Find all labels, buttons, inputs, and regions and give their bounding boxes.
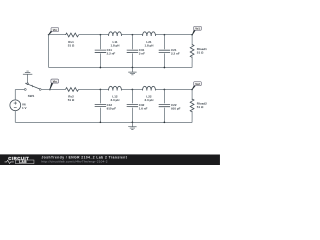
junction node C12 bottom bbox=[100, 121, 102, 123]
wire Vin to Rs1 bbox=[49, 34, 66, 36]
junction node at C31 top bbox=[132, 34, 134, 36]
svg-text:51 Ω: 51 Ω bbox=[197, 105, 204, 109]
wire switch to Rs2 bbox=[41, 88, 65, 90]
svg-text:51 Ω: 51 Ω bbox=[197, 50, 204, 54]
svg-text:LAB: LAB bbox=[19, 160, 27, 164]
flag Vin (bottom circuit) bbox=[50, 79, 59, 89]
svg-text:Vo1: Vo1 bbox=[195, 27, 200, 31]
ground (bottom circuit) bbox=[128, 122, 136, 129]
wire left vertical (top circuit) bbox=[48, 35, 50, 68]
svg-text:910 pF: 910 pF bbox=[171, 107, 181, 111]
inductor L22 bbox=[143, 86, 156, 102]
resistor Rs1 bbox=[66, 33, 79, 47]
wire Rs2 to L12 bbox=[78, 88, 108, 90]
svg-text:1.8 µH: 1.8 µH bbox=[111, 44, 120, 48]
wire V6 top to switch bbox=[15, 89, 24, 99]
inductor L11 bbox=[109, 32, 122, 48]
capacitor C11 bbox=[95, 35, 116, 68]
svg-text:Vo2: Vo2 bbox=[195, 82, 200, 86]
capacitor C12 bbox=[95, 89, 117, 122]
junction node C21 bottom bbox=[164, 67, 166, 69]
wire Rs1 to L11 bbox=[79, 34, 109, 36]
flag Vin (top circuit) bbox=[49, 27, 59, 34]
flag Vo1 bbox=[192, 26, 201, 35]
svg-text:3 nF: 3 nF bbox=[139, 52, 145, 56]
svg-text:910 pF: 910 pF bbox=[107, 107, 117, 111]
svg-text:2.2 nF: 2.2 nF bbox=[171, 52, 180, 56]
voltage source V6 bbox=[10, 100, 27, 111]
resistor Rload1 bbox=[190, 35, 207, 68]
node Vo2 bbox=[191, 89, 193, 91]
node Vin (bottom) bbox=[49, 89, 51, 91]
junction node ground (bottom circuit) bbox=[132, 121, 134, 123]
junction node at C11 top bbox=[100, 34, 102, 36]
svg-text:51 Ω: 51 Ω bbox=[68, 98, 75, 102]
footer bar bbox=[0, 154, 220, 165]
capacitor C32 bbox=[127, 90, 148, 123]
wire L11 to L21 bbox=[122, 34, 143, 36]
switch SW1 bbox=[24, 83, 41, 98]
junction node at C21 top bbox=[164, 34, 166, 36]
svg-text:Vin: Vin bbox=[53, 79, 57, 83]
svg-text:Vin: Vin bbox=[53, 28, 57, 32]
wire L21 to output corner bbox=[156, 34, 193, 36]
inductor L12 bbox=[109, 86, 122, 102]
svg-text:3.3 µH: 3.3 µH bbox=[145, 98, 154, 102]
wire L12 to L22 bbox=[121, 89, 142, 91]
junction node at C32 top bbox=[132, 89, 134, 91]
wire bottom rail (bottom circuit) bbox=[15, 121, 192, 123]
junction node C22 bottom bbox=[164, 121, 166, 123]
ground (top circuit) bbox=[128, 68, 136, 75]
flag Vo2 bbox=[192, 82, 201, 90]
capacitor C22 bbox=[159, 90, 181, 123]
capacitor C31 bbox=[127, 35, 145, 68]
resistor Rload2 bbox=[190, 90, 207, 123]
wire V6 bottom to rail bbox=[14, 111, 16, 123]
node Vo1 bbox=[191, 34, 193, 36]
junction node C11 bottom bbox=[100, 67, 102, 69]
svg-text:2.2 nF: 2.2 nF bbox=[107, 52, 116, 56]
junction node at C12 top bbox=[100, 89, 102, 91]
inductor L21 bbox=[143, 32, 156, 48]
svg-text:1 V: 1 V bbox=[22, 106, 27, 110]
svg-text:SW1: SW1 bbox=[28, 94, 35, 98]
svg-text:1.8 µH: 1.8 µH bbox=[145, 44, 154, 48]
resistor Rs2 bbox=[65, 88, 78, 102]
svg-text:3.3 µH: 3.3 µH bbox=[111, 98, 120, 102]
node Vin (top) bbox=[48, 34, 50, 36]
svg-text:51 Ω: 51 Ω bbox=[68, 43, 75, 47]
wire bottom rail (top circuit) bbox=[49, 66, 192, 68]
junction node ground (top circuit) bbox=[132, 67, 134, 69]
ground (flipped, above switch) bbox=[23, 71, 32, 83]
svg-text:1.6 nF: 1.6 nF bbox=[139, 107, 148, 111]
CircuitLab logo bbox=[5, 156, 34, 164]
junction node at C22 top bbox=[164, 89, 166, 91]
wire L22 to output corner bbox=[155, 89, 192, 91]
svg-text:http://circuitlab.com/c/4hv7fm: http://circuitlab.com/c/4hv7fm/engr-2104… bbox=[41, 159, 107, 163]
capacitor C21 bbox=[159, 35, 180, 68]
